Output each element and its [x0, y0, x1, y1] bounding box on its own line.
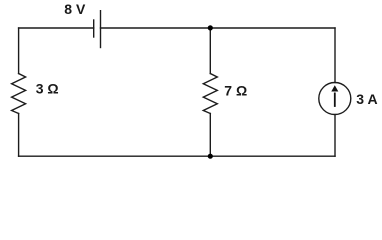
svg-text:3 Ω: 3 Ω: [36, 81, 59, 97]
battery V1 long plate (positive): [100, 11, 102, 48]
resistor R1 3-ohm zigzag: [12, 74, 26, 114]
wire left branch upper (top-left corner to R1 top): [18, 28, 20, 74]
wire bottom (bottom-left corner to bottom-right corner through node B): [19, 155, 335, 157]
wire right branch lower (I1 bottom to bottom-right corner): [334, 115, 336, 157]
wire left branch lower (R1 bottom to bottom-left corner): [18, 114, 20, 157]
wire middle branch lower (R2 bottom to node B): [209, 114, 211, 157]
wire middle branch upper (node A to R2 top): [209, 28, 211, 74]
wire top (battery positive to node A): [101, 27, 211, 29]
svg-text:7 Ω: 7 Ω: [224, 82, 247, 98]
svg-text:3 A: 3 A: [356, 91, 377, 107]
wire right branch upper (top-right corner to I1 top): [334, 28, 336, 83]
current source I1 circle: [319, 83, 351, 115]
svg-text:8 V: 8 V: [64, 1, 86, 17]
resistor R2 7-ohm zigzag: [203, 74, 217, 114]
junction node A dot: [208, 25, 213, 30]
wire top-right (node A to top-right corner): [210, 27, 335, 29]
wire top-left (battery negative to top-left corner): [19, 27, 94, 29]
current source I1 arrow: [331, 85, 338, 107]
junction node B dot: [208, 154, 213, 159]
battery V1 short plate (negative): [93, 20, 95, 37]
